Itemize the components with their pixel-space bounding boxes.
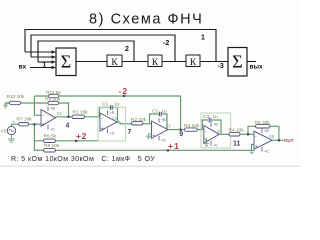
- arrowheads into summator U1: [52, 50, 57, 69]
- wire R10 left to ground: [6, 103, 10, 105]
- resistor R2: [131, 117, 147, 125]
- resistor R4: [229, 128, 245, 136]
- svg-text:X2: X2: [112, 116, 118, 121]
- capacitor C3: [203, 114, 218, 122]
- source V3 sine: [9, 129, 14, 131]
- svg-text:X4: X4: [217, 128, 223, 133]
- wire middle feedback top: [31, 35, 175, 62]
- wire K1 to K2: [122, 61, 148, 63]
- wire op4 out to R4: [219, 133, 229, 135]
- svg-text:OUT: OUT: [284, 138, 294, 143]
- resistor R9: [44, 134, 57, 143]
- source V3 circle: [7, 126, 15, 134]
- svg-text:-2: -2: [119, 86, 129, 96]
- amplifier K2 box: [148, 55, 162, 67]
- wire R6 right to node4: [58, 103, 69, 117]
- svg-text:R10 10k: R10 10k: [7, 94, 25, 100]
- svg-text:вх: вх: [19, 64, 27, 71]
- svg-text:4: 4: [66, 123, 70, 130]
- wire outer feedback into sum1: [25, 51, 53, 53]
- node dot node9: [180, 129, 182, 131]
- svg-text:11: 11: [233, 141, 241, 148]
- svg-text:1u: 1u: [114, 102, 120, 108]
- svg-text:К: К: [111, 58, 118, 68]
- svg-text:+: +: [101, 126, 104, 132]
- svg-text:+C: +C: [264, 150, 269, 154]
- selection box around op2: [98, 107, 126, 141]
- faint bottom rule: [0, 165, 300, 167]
- svg-text:X1: X1: [57, 111, 63, 116]
- wire R3 to op4: [197, 129, 204, 131]
- svg-text:+B: +B: [213, 123, 218, 127]
- wire K2 to K3: [162, 61, 186, 63]
- svg-text:X5: X5: [269, 134, 275, 139]
- svg-text:К: К: [152, 58, 159, 68]
- svg-text:R1 10k: R1 10k: [73, 110, 89, 116]
- op-amp U1: [41, 107, 62, 132]
- junction dots: [33, 95, 280, 152]
- svg-text:-3: -3: [218, 63, 224, 70]
- svg-text:+C: +C: [161, 139, 166, 143]
- svg-text:+C: +C: [213, 144, 218, 148]
- wire inner feedback into sum1: [38, 61, 53, 63]
- amplifier K3 box: [186, 55, 200, 67]
- svg-text:+1: +1: [168, 141, 180, 151]
- wire K3 to sum2: [200, 61, 228, 63]
- wire C2 right down to op3 out: [162, 114, 167, 130]
- ground op5 plus: [249, 150, 256, 152]
- op-amp U5: [249, 129, 275, 154]
- wire R4 to op5: [240, 133, 254, 135]
- svg-text:+B: +B: [264, 129, 269, 133]
- svg-text:7: 7: [128, 129, 132, 136]
- svg-text:+C: +C: [50, 128, 55, 132]
- svg-text:9: 9: [179, 131, 183, 138]
- svg-text:C3: C3: [203, 114, 209, 120]
- wire outer feedback top: [25, 30, 216, 62]
- resistor R7: [17, 117, 33, 126]
- selection box around op4: [201, 113, 231, 148]
- resistor R8: [44, 143, 60, 152]
- resistor R11: [46, 90, 61, 98]
- capacitor C2: [152, 108, 167, 116]
- wire V3 to R7: [12, 124, 19, 126]
- wire R9 row: [34, 140, 98, 142]
- wire C1 right down to op2 out: [113, 108, 118, 123]
- node dot -2 wire: [123, 95, 125, 97]
- wire vx input: [30, 67, 53, 69]
- node dot +2 wire: [75, 140, 77, 142]
- svg-text:Σ: Σ: [61, 52, 71, 72]
- wire R5 right vertical to out: [270, 126, 279, 140]
- svg-text:+: +: [42, 122, 45, 128]
- wire R8 bottom +1 feedback: [56, 149, 252, 151]
- svg-text:R7 10k: R7 10k: [17, 117, 33, 123]
- node dot R4-R5: [247, 133, 249, 135]
- wire op3 out to node9: [168, 129, 184, 131]
- svg-text:1: 1: [43, 62, 47, 69]
- svg-text:1u: 1u: [162, 108, 168, 114]
- wire R5 feedback left vertical: [248, 126, 256, 134]
- ground op3 plus: [149, 134, 152, 136]
- svg-text:+B: +B: [50, 107, 55, 111]
- op-amp U4: [204, 123, 222, 148]
- svg-text:+: +: [255, 144, 258, 150]
- wire op1 input vertical upper: [34, 96, 41, 115]
- wire inner feedback top: [38, 41, 134, 62]
- svg-text:C2: C2: [152, 108, 158, 114]
- wire sum2 output: [247, 61, 256, 63]
- svg-text:2: 2: [125, 46, 129, 53]
- svg-text:вых: вых: [250, 64, 264, 71]
- svg-text:1: 1: [201, 35, 205, 42]
- svg-text:+2: +2: [76, 131, 87, 141]
- svg-text:R9 5k: R9 5k: [44, 134, 57, 140]
- wire sum1 to K1: [76, 61, 107, 63]
- svg-text:Σ: Σ: [232, 52, 242, 72]
- op-amp U2: [100, 111, 118, 136]
- svg-text:1u: 1u: [213, 114, 219, 120]
- wire C3 right down to op4 out: [212, 120, 221, 134]
- node dot out: [278, 139, 280, 141]
- node dot node4: [67, 116, 69, 118]
- wire node9 vertical: [180, 96, 182, 130]
- wire op3 C2 feedback: [150, 114, 159, 124]
- op-amp U3: [146, 118, 171, 143]
- svg-text:R: 5 кОм 10кОм 30кОм C: 1мкФ: R: 5 кОм 10кОм 30кОм C: 1мкФ 5 ОУ: [11, 156, 155, 163]
- ground V3: [8, 135, 15, 143]
- wire op2 C1 feedback: [100, 108, 110, 118]
- wire op2 out to op3: [117, 122, 152, 124]
- svg-text:-2: -2: [163, 40, 169, 47]
- svg-text:+: +: [13, 119, 16, 124]
- wire op5 plus to ground: [252, 145, 255, 151]
- wire -2 feedback top (node9 to op1 input): [34, 95, 180, 97]
- resistor R6: [45, 97, 61, 105]
- amplifier K1 box: [107, 55, 122, 67]
- wire R7 to op1 plus: [29, 123, 41, 125]
- resistor R5: [255, 120, 271, 128]
- resistor R10: [7, 94, 25, 105]
- ground for R10: [3, 105, 8, 108]
- svg-text:+: +: [152, 133, 155, 139]
- summator U2 box: [228, 48, 247, 77]
- node dot +1 wire: [167, 149, 169, 151]
- svg-text:C1: C1: [102, 102, 108, 108]
- capacitor C1: [102, 102, 120, 110]
- svg-text:К: К: [190, 58, 197, 68]
- svg-text:+B: +B: [110, 111, 115, 115]
- wire op1 out to op2: [56, 116, 101, 118]
- summator U1 box: [56, 48, 76, 76]
- wire middle feedback into sum1: [31, 56, 53, 58]
- resistor R1: [72, 110, 88, 119]
- svg-text:+C: +C: [110, 132, 115, 136]
- resistor R3: [184, 123, 200, 131]
- svg-text:X3: X3: [166, 124, 172, 129]
- wire R10-R6 row: [6, 102, 49, 104]
- svg-text:V3: V3: [1, 129, 7, 135]
- node dot R7 junction: [33, 123, 35, 125]
- ground op4 plus: [204, 139, 207, 144]
- svg-text:8) Схема ФНЧ: 8) Схема ФНЧ: [89, 12, 203, 28]
- svg-text:+B: +B: [161, 118, 166, 122]
- wire op4 C3 feedback: [202, 120, 208, 130]
- wire op1 input vertical lower: [34, 124, 43, 150]
- wire op5 out: [272, 139, 283, 141]
